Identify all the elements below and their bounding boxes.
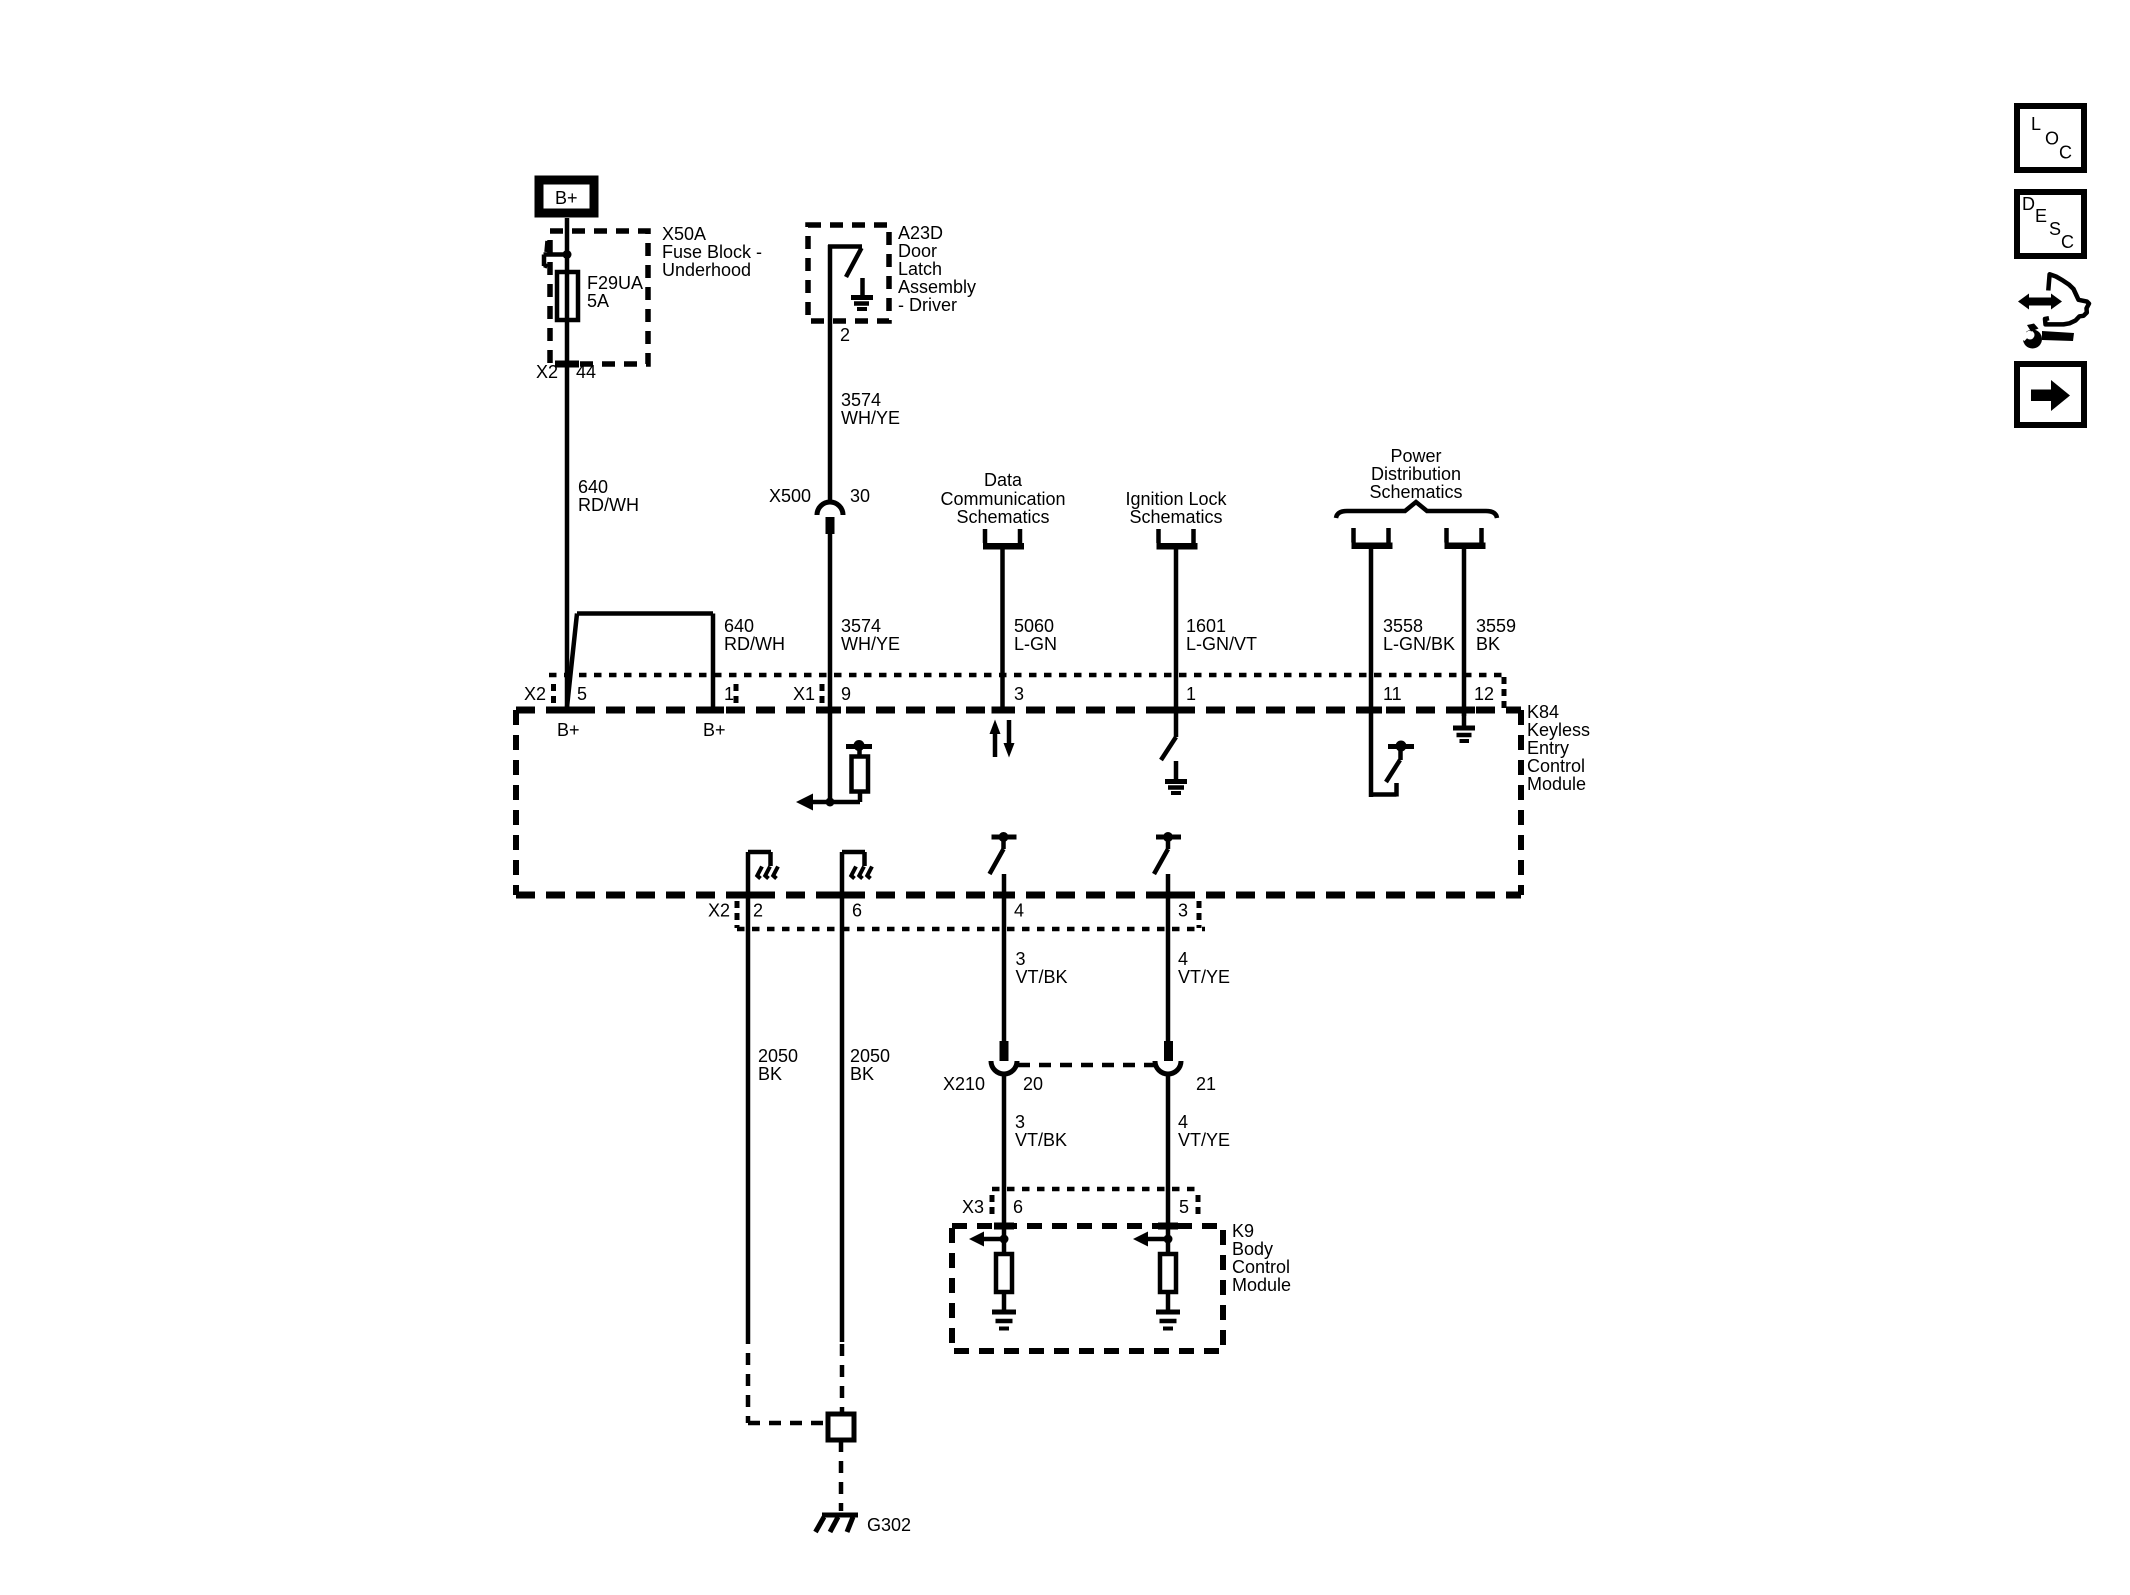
K84 keyless entry control module box top edge: [516, 707, 1521, 714]
internal chassis ground pin 2: [748, 852, 778, 879]
internal ground on 3559 input: [1453, 713, 1475, 741]
svg-text:- Driver: - Driver: [898, 295, 957, 315]
in-line connector X210 pin 21: [1155, 1041, 1181, 1074]
svg-text:Keyless: Keyless: [1527, 720, 1590, 740]
pin tick X2-44: [555, 361, 579, 368]
svg-text:640: 640: [724, 616, 754, 636]
compare icon vehicle outline: [2045, 274, 2089, 324]
svg-text:4: 4: [1178, 1112, 1188, 1132]
wire 1601 L-GN/VT: [1174, 550, 1179, 738]
compare icon wrench: [2017, 324, 2075, 349]
internal switch to ground on 1601 input: [1161, 737, 1176, 760]
svg-text:11: 11: [1383, 684, 1402, 704]
separator X3: [990, 1195, 995, 1217]
svg-text:BK: BK: [850, 1064, 874, 1084]
svg-text:3574: 3574: [841, 616, 881, 636]
dashed wire splice to G302: [839, 1440, 844, 1511]
pin ticks K9 top: [994, 1223, 1014, 1230]
door latch assembly A23D dashed box: [808, 225, 889, 321]
door latch switch: [828, 245, 862, 321]
splice block: [828, 1414, 854, 1440]
svg-text:VT/BK: VT/BK: [1015, 1130, 1067, 1150]
lower connector row X2 dotted line: [737, 927, 1205, 932]
svg-text:B+: B+: [703, 720, 726, 740]
svg-text:F29UA: F29UA: [587, 273, 643, 293]
internal resistor pin 6: [996, 1254, 1012, 1310]
svg-text:RD/WH: RD/WH: [724, 634, 785, 654]
svg-text:S: S: [2049, 219, 2061, 239]
serial data arrows pin 3: [990, 720, 1015, 758]
internal ground pin 6: [992, 1312, 1016, 1329]
wire 2050 BK pin 6: [840, 852, 845, 1342]
svg-text:D: D: [2022, 194, 2035, 214]
svg-text:WH/YE: WH/YE: [841, 408, 900, 428]
X210 dashed connector line: [1018, 1063, 1154, 1068]
svg-text:B+: B+: [555, 188, 578, 208]
svg-text:Power: Power: [1390, 446, 1441, 466]
svg-text:X210: X210: [943, 1074, 985, 1094]
internal switch on pin 4 output: [990, 832, 1017, 874]
svg-text:B+: B+: [557, 720, 580, 740]
svg-text:X3: X3: [962, 1197, 984, 1217]
dashed wire 2050 BK right to splice: [840, 1344, 845, 1413]
svg-text:21: 21: [1196, 1074, 1216, 1094]
svg-text:1: 1: [724, 684, 734, 704]
svg-text:BK: BK: [1476, 634, 1500, 654]
svg-text:VT/YE: VT/YE: [1178, 967, 1230, 987]
svg-text:Fuse Block -: Fuse Block -: [662, 242, 762, 262]
svg-text:Data: Data: [984, 470, 1023, 490]
svg-text:3559: 3559: [1476, 616, 1516, 636]
svg-text:Module: Module: [1232, 1275, 1291, 1295]
pin ticks bottom edge: [737, 892, 759, 899]
wire 3 VT/BK from pin 4: [1002, 874, 1007, 1041]
LOC icon box: [2017, 106, 2084, 170]
svg-text:2: 2: [840, 325, 850, 345]
connector row dotted line X2/X1: [549, 673, 1503, 678]
off-page connector ignition lock: [1157, 529, 1198, 550]
separator after pin 1: [734, 684, 739, 706]
terminal clip in fuse block: [544, 241, 568, 267]
svg-text:3558: 3558: [1383, 616, 1423, 636]
wire 4 VT/YE from pin 3: [1166, 874, 1171, 1041]
svg-text:Entry: Entry: [1527, 738, 1569, 758]
internal arrow pin 6: [969, 1232, 1009, 1247]
wire 3574 WH/YE lower: [828, 534, 833, 802]
svg-text:2050: 2050: [850, 1046, 890, 1066]
svg-text:3574: 3574: [841, 390, 881, 410]
svg-text:K9: K9: [1232, 1221, 1254, 1241]
svg-text:X2: X2: [524, 684, 546, 704]
internal switch on pin 3 output: [1154, 832, 1181, 874]
svg-text:Schematics: Schematics: [1129, 507, 1222, 527]
svg-text:5060: 5060: [1014, 616, 1054, 636]
pin ticks top edge: [556, 707, 578, 714]
svg-text:Assembly: Assembly: [898, 277, 976, 297]
fuse block X50A dashed box: [550, 231, 648, 364]
wire 3574 WH/YE upper: [828, 321, 833, 503]
separator X1: [820, 684, 825, 706]
svg-text:VT/BK: VT/BK: [1016, 967, 1068, 987]
internal arrow pin 5: [1133, 1232, 1173, 1247]
internal chassis ground pin 6: [842, 852, 872, 879]
svg-text:C: C: [2059, 143, 2072, 163]
junction dot at fuse feed: [563, 250, 572, 259]
svg-text:2050: 2050: [758, 1046, 798, 1066]
svg-text:5: 5: [577, 684, 587, 704]
separator lower right: [1197, 901, 1202, 928]
svg-text:12: 12: [1474, 684, 1494, 704]
DESC icon box: [2017, 192, 2084, 256]
svg-text:WH/YE: WH/YE: [841, 634, 900, 654]
svg-text:L: L: [2031, 114, 2041, 134]
svg-text:X50A: X50A: [662, 224, 706, 244]
internal ground pin 5: [1156, 1312, 1180, 1329]
K84 box left edge: [513, 710, 519, 895]
wire 2050 BK pin 2: [746, 852, 751, 1332]
svg-text:O: O: [2045, 129, 2059, 149]
svg-text:4: 4: [1178, 949, 1188, 969]
svg-text:Schematics: Schematics: [956, 507, 1049, 527]
svg-text:640: 640: [578, 477, 608, 497]
K9 body control module box: [952, 1226, 1223, 1351]
svg-text:A23D: A23D: [898, 223, 943, 243]
svg-text:4: 4: [1014, 901, 1024, 921]
svg-text:2: 2: [753, 901, 763, 921]
K84 box right edge: [1518, 710, 1524, 895]
connector row X3 dotted line: [992, 1187, 1199, 1192]
K84 box bottom edge: [516, 892, 1521, 899]
svg-text:Module: Module: [1527, 774, 1586, 794]
svg-text:X2: X2: [536, 362, 558, 382]
separator X2: [551, 684, 556, 706]
svg-text:1601: 1601: [1186, 616, 1226, 636]
fuse F29UA 5A: [557, 272, 578, 320]
svg-text:X500: X500: [769, 486, 811, 506]
in-line connector X210 pin 20: [991, 1041, 1017, 1074]
svg-text:X1: X1: [793, 684, 815, 704]
svg-text:BK: BK: [758, 1064, 782, 1084]
svg-text:20: 20: [1023, 1074, 1043, 1094]
svg-text:E: E: [2035, 206, 2047, 226]
svg-text:Underhood: Underhood: [662, 260, 751, 280]
svg-text:K84: K84: [1527, 702, 1559, 722]
internal resistor pin 5: [1160, 1254, 1176, 1310]
separator X3 right: [1196, 1195, 1201, 1217]
internal switch on 3558 input: [1371, 741, 1414, 797]
svg-text:L-GN: L-GN: [1014, 634, 1057, 654]
svg-text:3: 3: [1014, 684, 1024, 704]
separator lower X2: [735, 901, 740, 928]
svg-text:3: 3: [1015, 1112, 1025, 1132]
off-page connector data communication: [983, 529, 1024, 550]
svg-text:RD/WH: RD/WH: [578, 495, 639, 515]
internal ground on 1601 input: [1165, 761, 1187, 793]
compare icon double arrow: [2018, 294, 2062, 310]
svg-text:C: C: [2061, 232, 2074, 252]
svg-text:30: 30: [850, 486, 870, 506]
svg-text:G302: G302: [867, 1515, 911, 1535]
off-page connector power distribution right: [1445, 528, 1486, 549]
svg-text:Ignition Lock: Ignition Lock: [1125, 489, 1227, 509]
off-page connector power distribution left: [1352, 528, 1393, 549]
svg-text:44: 44: [576, 362, 596, 382]
svg-text:L-GN/BK: L-GN/BK: [1383, 634, 1455, 654]
internal junction and arrow on 3574: [796, 794, 860, 811]
ground G302: [816, 1515, 859, 1532]
svg-text:1: 1: [1186, 684, 1196, 704]
svg-text:Body: Body: [1232, 1239, 1273, 1259]
svg-text:VT/YE: VT/YE: [1178, 1130, 1230, 1150]
wire 3 VT/BK to BCM: [1002, 1074, 1007, 1254]
ground in door latch assembly: [851, 278, 873, 309]
dashed wire 2050 BK left to splice: [748, 1332, 827, 1423]
battery feed B+ box: [539, 180, 594, 213]
svg-text:Control: Control: [1527, 756, 1585, 776]
svg-text:6: 6: [1013, 1197, 1023, 1217]
svg-text:3: 3: [1178, 901, 1188, 921]
wire 640 RD/WH from B+ to pin X2-5: [565, 218, 570, 707]
wire 3558 L-GN/BK: [1369, 549, 1374, 797]
svg-text:Door: Door: [898, 241, 937, 261]
brace for power distribution: [1336, 502, 1497, 518]
svg-text:5A: 5A: [587, 291, 609, 311]
wire 4 VT/YE to BCM: [1166, 1074, 1171, 1254]
svg-text:Control: Control: [1232, 1257, 1290, 1277]
svg-text:Distribution: Distribution: [1371, 464, 1461, 484]
svg-text:Schematics: Schematics: [1369, 482, 1462, 502]
next page arrow icon: [2017, 364, 2084, 425]
separator after pin 12: [1502, 677, 1507, 711]
internal resistor on 3574 input: [846, 740, 872, 802]
svg-text:Latch: Latch: [898, 259, 942, 279]
svg-text:Communication: Communication: [940, 489, 1065, 509]
svg-text:6: 6: [852, 901, 862, 921]
svg-text:L-GN/VT: L-GN/VT: [1186, 634, 1257, 654]
svg-text:9: 9: [841, 684, 851, 704]
in-line connector X500 pin 30: [817, 502, 843, 534]
wire 5060 L-GN: [1000, 550, 1005, 711]
svg-text:3: 3: [1016, 949, 1026, 969]
svg-text:X2: X2: [708, 901, 730, 921]
wire 3559 BK: [1462, 549, 1467, 716]
svg-text:5: 5: [1179, 1197, 1189, 1217]
wire branch to pin X2-1: [567, 614, 713, 711]
